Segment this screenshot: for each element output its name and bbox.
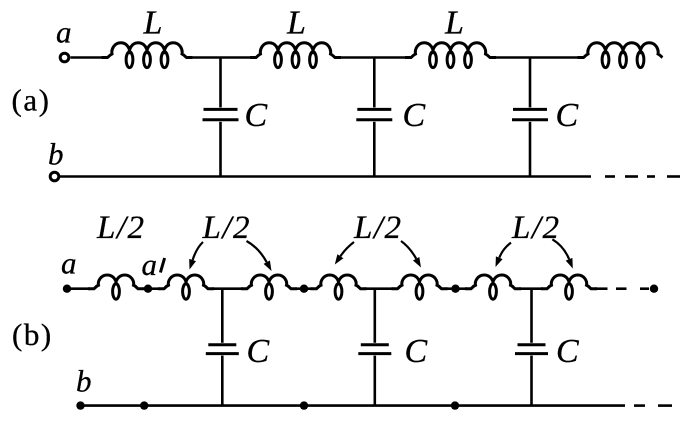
svg-text:C: C [556,97,579,134]
svg-text:C: C [403,97,426,134]
svg-text:(a): (a) [12,83,51,118]
svg-text:C: C [405,333,428,370]
svg-text:b: b [48,137,64,172]
svg-text:L: L [444,5,464,42]
svg-text:L/2: L/2 [353,210,403,246]
svg-text:L: L [286,5,306,42]
svg-text:a: a [56,15,72,50]
svg-text:C: C [247,333,270,370]
svg-text:L: L [143,5,163,42]
svg-text:b: b [76,364,92,399]
svg-text:a: a [142,247,158,282]
svg-text:L/2: L/2 [96,210,146,246]
svg-text:L/2: L/2 [202,210,252,246]
svg-text:C: C [245,97,268,134]
svg-text:a: a [61,246,77,281]
svg-text:C: C [556,333,579,370]
svg-text:(b): (b) [12,317,53,352]
